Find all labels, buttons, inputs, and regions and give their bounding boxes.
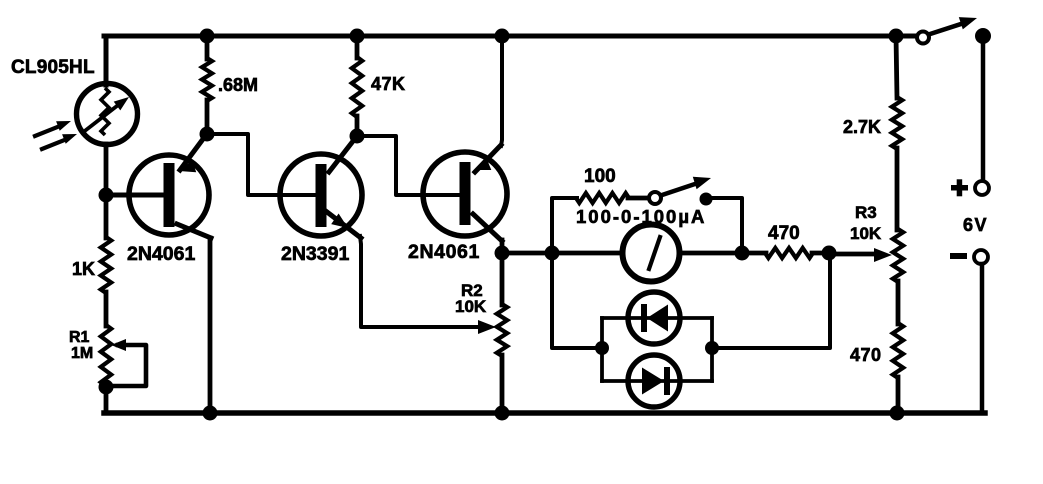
wire battery positive bbox=[981, 38, 986, 181]
diode D1 bbox=[628, 292, 680, 344]
svg-text:470: 470 bbox=[850, 345, 882, 365]
transistor Q2 2N3391 bbox=[280, 154, 362, 236]
node top/.68M bbox=[200, 29, 215, 44]
node meter left bbox=[545, 246, 560, 261]
node top/47K bbox=[350, 29, 365, 44]
wire Q1 collector to bottom rail bbox=[208, 238, 213, 413]
svg-text:47K: 47K bbox=[371, 74, 406, 94]
node .68M/Q1 emitter bbox=[200, 127, 215, 142]
svg-text:10K: 10K bbox=[850, 224, 882, 243]
potentiometer R2 10K bbox=[500, 253, 505, 305]
svg-text:2.7K: 2.7K bbox=[843, 117, 881, 137]
wire 470 to node bbox=[812, 251, 829, 256]
wire 47K node to Q3 base bbox=[362, 136, 460, 195]
svg-text:470: 470 bbox=[768, 223, 800, 244]
node right/bottom rail bbox=[890, 406, 905, 421]
svg-text:2N4061: 2N4061 bbox=[408, 241, 480, 263]
wire photocell to base node bbox=[104, 144, 109, 196]
wire .68M node to Q2 base bbox=[212, 134, 316, 195]
svg-text:10K: 10K bbox=[455, 297, 487, 316]
svg-text:2N4061: 2N4061 bbox=[127, 243, 195, 265]
wire top rail bbox=[104, 34, 917, 39]
wire meter left to diodes bbox=[552, 253, 601, 348]
wire diodes to 470 node bbox=[712, 253, 830, 348]
svg-text:1M: 1M bbox=[71, 345, 93, 362]
switch S1 power bbox=[917, 32, 929, 44]
node 470/R3 wiper bbox=[822, 246, 837, 261]
potentiometer R1 1M bbox=[101, 325, 111, 386]
wire left rail bbox=[104, 36, 109, 85]
potentiometer R3 10K bbox=[893, 229, 903, 282]
resistor 47K bbox=[355, 36, 360, 58]
resistor .68M bbox=[205, 36, 210, 59]
node A photocell/Q1 base bbox=[99, 188, 114, 203]
node top/Q3 emitter bbox=[495, 29, 510, 44]
svg-text:R3: R3 bbox=[855, 203, 877, 222]
switch S2 meter shunt bbox=[649, 192, 661, 204]
svg-text:R1: R1 bbox=[69, 329, 90, 346]
wire Q2 emitter to R2 wiper bbox=[360, 236, 478, 327]
resistor 1K bbox=[101, 237, 111, 293]
meter M1 bbox=[623, 225, 680, 282]
wire meter right lead bbox=[680, 251, 742, 256]
wire shunt branch right bbox=[709, 198, 742, 248]
light arrows bbox=[35, 126, 60, 136]
battery terminal + bbox=[951, 185, 968, 191]
svg-text:.68M: .68M bbox=[218, 75, 258, 95]
resistor 470 horizontal bbox=[765, 248, 813, 258]
wire R1 wiper loop bbox=[111, 339, 126, 351]
node R1 bottom bbox=[99, 380, 114, 395]
wire battery negative bbox=[980, 264, 985, 413]
wire shunt branch left bbox=[552, 198, 577, 253]
wire bottom rail bbox=[104, 410, 985, 416]
wire R3 wiper bbox=[829, 252, 874, 257]
wire diode box bbox=[600, 318, 604, 381]
photocell CL905HL bbox=[77, 84, 138, 145]
wire Q3 emitter to top rail bbox=[501, 36, 502, 146]
node Q1 collector/bottom rail bbox=[203, 406, 218, 421]
svg-text:CL905HL: CL905HL bbox=[11, 57, 95, 78]
wire meter left lead bbox=[552, 251, 622, 256]
battery terminal - bbox=[950, 253, 967, 259]
svg-text:100: 100 bbox=[584, 166, 616, 187]
svg-text:2N3391: 2N3391 bbox=[281, 243, 349, 265]
svg-text:6V: 6V bbox=[963, 215, 988, 235]
svg-text:1K: 1K bbox=[72, 259, 95, 279]
node meter right bbox=[735, 246, 750, 261]
wire meter to 470 bbox=[742, 251, 766, 256]
node top/2.7K bbox=[889, 29, 904, 44]
node Q3 collector/meter branch bbox=[495, 246, 510, 261]
node 47K/Q2 collector bbox=[350, 129, 365, 144]
resistor 2.7K bbox=[896, 36, 897, 98]
node R2/bottom rail bbox=[495, 406, 510, 421]
node diodes left bbox=[595, 341, 609, 355]
transistor Q3 2N4061 bbox=[423, 152, 507, 236]
transistor Q1 2N4061 bbox=[129, 155, 209, 235]
diode D2 bbox=[628, 355, 680, 407]
wire 100 to switch bbox=[628, 196, 649, 201]
wire Q3 collector down bbox=[500, 240, 505, 253]
wire node to meter left bbox=[502, 251, 553, 256]
wire R1 to bottom rail bbox=[104, 387, 109, 413]
resistor 100 bbox=[576, 193, 629, 203]
node diodes right bbox=[705, 341, 719, 355]
resistor 470 vertical bbox=[896, 281, 901, 324]
